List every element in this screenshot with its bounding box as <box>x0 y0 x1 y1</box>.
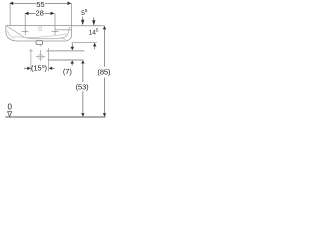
svg-text:): ) <box>45 64 48 73</box>
svg-text:(85): (85) <box>97 68 111 77</box>
svg-text:28: 28 <box>35 8 43 17</box>
svg-text:(7): (7) <box>63 67 72 76</box>
svg-text:(15: (15 <box>31 64 42 73</box>
svg-text:(53): (53) <box>76 82 90 91</box>
svg-text:5: 5 <box>85 8 88 14</box>
svg-text:0: 0 <box>8 102 13 111</box>
svg-text:5: 5 <box>96 27 99 33</box>
